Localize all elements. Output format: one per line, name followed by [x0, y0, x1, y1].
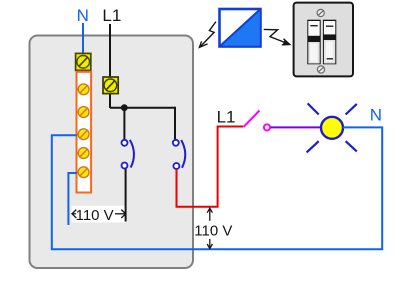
breaker photo bottom screw: [317, 66, 324, 73]
breaker photo wall plate: [294, 3, 353, 77]
breaker photo left toggle: [308, 21, 319, 64]
neutral bar screw 5: [78, 167, 89, 178]
wire L1 supply drop: [109, 24, 111, 108]
svg-text:N: N: [77, 6, 89, 25]
neutral bar screw 3: [78, 129, 89, 140]
measurement 110V (red to blue) up arrow: [207, 208, 212, 221]
wire neutral return (blue): [52, 127, 382, 249]
breaker photo right toggle: [324, 21, 335, 64]
switch S1 terminal: [264, 124, 270, 130]
svg-text:N: N: [370, 105, 382, 124]
breaker photo left pole slot: [307, 20, 320, 65]
wire hot feed (red) from CB2 to switch: [177, 127, 244, 207]
measurement 110V right arrow: [115, 210, 126, 218]
wire N supply drop: [82, 23, 84, 54]
wire branch down to breaker CB2: [174, 107, 176, 140]
switch S1 blade: [244, 111, 260, 128]
panel enclosure: [30, 36, 194, 269]
breaker photo right pole slot: [323, 20, 336, 65]
terminal L1 (yellow lug): [103, 77, 118, 94]
neutral bar screw 4: [78, 148, 89, 159]
wire switched line (violet) to lamp: [271, 126, 321, 128]
breaker photo top screw: [317, 9, 324, 16]
svg-text:110 V: 110 V: [76, 207, 114, 224]
wire CB1 measurement tap: [125, 169, 127, 222]
svg-text:110 V: 110 V: [194, 222, 232, 239]
breaker CB2: [173, 140, 185, 169]
wire neutral measurement tap (blue): [68, 173, 76, 225]
annotation arrow to symbol: [199, 22, 216, 48]
terminal N (yellow lug): [76, 53, 91, 70]
neutral bar screw 1: [78, 84, 89, 95]
svg-text:L1: L1: [217, 107, 236, 126]
breaker CB1: [122, 140, 134, 169]
wire L1 bus horizontal: [110, 107, 175, 109]
annotation arrow to breaker photo: [264, 29, 290, 44]
measurement 110V left arrow: [72, 210, 76, 218]
neutral bar: [77, 72, 92, 193]
svg-text:L1: L1: [102, 6, 121, 25]
measurement 110V (red to blue) down arrow: [207, 239, 212, 249]
junction node: [121, 104, 128, 111]
breaker symbol legend icon: [220, 9, 261, 47]
measurement 110V label backing: [72, 206, 127, 223]
lamp: [307, 103, 357, 152]
neutral bar screw 2: [78, 107, 89, 118]
wire branch to breaker CB1: [123, 108, 125, 140]
